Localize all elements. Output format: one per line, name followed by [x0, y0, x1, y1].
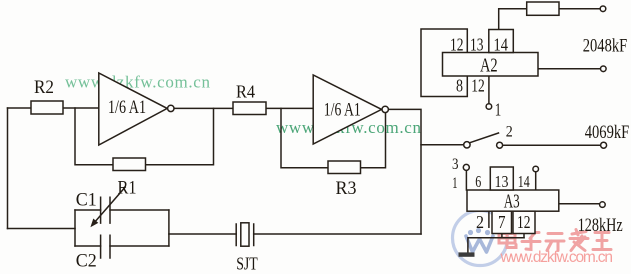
svg-text:4069kF: 4069kF	[585, 122, 630, 143]
svg-text:2048kF: 2048kF	[583, 36, 628, 57]
svg-text:C2: C2	[76, 250, 97, 271]
svg-text:R4: R4	[236, 82, 255, 102]
svg-text:14: 14	[518, 172, 530, 191]
svg-text:R2: R2	[34, 77, 54, 98]
svg-text:A3: A3	[504, 191, 520, 213]
svg-text:12: 12	[471, 75, 485, 95]
svg-text:2: 2	[476, 212, 484, 232]
svg-text:12: 12	[450, 35, 464, 55]
svg-text:A2: A2	[480, 55, 498, 77]
svg-text:www.dzkfw.com.cn: www.dzkfw.com.cn	[500, 249, 614, 266]
svg-text:13: 13	[495, 172, 509, 191]
svg-text:R1: R1	[118, 178, 137, 199]
svg-text:6: 6	[475, 172, 481, 191]
svg-text:1/6 A1: 1/6 A1	[324, 100, 361, 121]
svg-text:1: 1	[452, 175, 458, 192]
svg-text:2: 2	[506, 123, 513, 140]
svg-text:3: 3	[452, 156, 459, 173]
svg-text:C1: C1	[76, 190, 97, 211]
svg-text:128kHz: 128kHz	[578, 215, 623, 236]
svg-text:14: 14	[494, 35, 509, 55]
svg-text:SJT: SJT	[236, 254, 258, 274]
svg-text:7: 7	[498, 212, 506, 232]
svg-text:R3: R3	[336, 178, 357, 199]
svg-text:www.dzkfw.com.cn: www.dzkfw.com.cn	[65, 72, 211, 91]
svg-text:13: 13	[470, 35, 484, 55]
svg-text:12: 12	[517, 212, 531, 232]
svg-text:1/6 A1: 1/6 A1	[108, 97, 146, 118]
svg-text:8: 8	[456, 75, 463, 95]
svg-text:1: 1	[495, 100, 502, 120]
